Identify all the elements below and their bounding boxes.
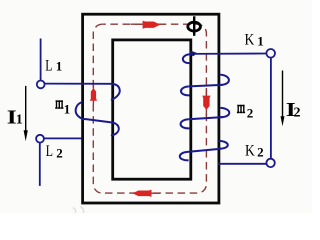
wire L2 vertical lead (39, 143, 41, 186)
flux arrow left leg line (92, 85, 94, 104)
terminal K2 (266, 159, 274, 167)
winding W2 coil left arc 1 (181, 86, 190, 95)
flux arrow right leg line (205, 88, 207, 116)
wire K1 to coil (191, 53, 267, 55)
flux arrow right leg (down-pointing) (202, 96, 210, 110)
flux arrow bottom line (133, 192, 161, 194)
faint scan marks bottom left (73, 207, 84, 215)
winding W2 coil right arc 1 (220, 75, 229, 85)
winding W2 coil arc top curl (183, 54, 191, 63)
flux dashed loop (93, 24, 206, 193)
label W2 glyph (237, 105, 245, 113)
flux arrow bottom (left-pointing) (132, 190, 151, 197)
svg-text:1: 1 (64, 101, 71, 116)
terminal L1 (37, 81, 45, 89)
wire K1 to K2 (270, 58, 272, 159)
current I2 arrowhead (281, 116, 285, 126)
flux arrow top (right-pointing) solid line under arrow (131, 23, 166, 25)
winding W1 coil (111, 84, 120, 100)
svg-text:2: 2 (294, 105, 301, 120)
svg-text:K: K (245, 32, 255, 49)
winding W2 coil left arc 3 (180, 152, 189, 160)
label W1 glyph (55, 100, 63, 108)
wire L1 to coil (45, 83, 113, 85)
svg-text:2: 2 (257, 144, 264, 159)
winding W2 coil front wire 3 (188, 149, 221, 152)
terminal L2 (36, 135, 44, 143)
winding W2 coil left arc 2 (181, 119, 190, 128)
terminal K1 (266, 49, 275, 58)
current I1 arrowhead (24, 130, 28, 141)
winding W2 coil front wire 2 (188, 117, 222, 119)
svg-text:1: 1 (56, 58, 63, 73)
wire L2 to coil (44, 137, 81, 139)
svg-text:L: L (46, 143, 53, 160)
svg-text:L: L (45, 57, 52, 74)
core inner rectangle (window) (113, 40, 191, 179)
flux symbol phi (188, 16, 201, 36)
current I1 direction line (25, 86, 27, 132)
wire K2 to coil (218, 163, 266, 165)
flux arrow left leg (up-pointing) (90, 88, 97, 101)
winding W2 coil right arc 3 (219, 141, 228, 149)
winding W2 coil front wire 1 (189, 85, 222, 87)
svg-text:2: 2 (56, 145, 63, 160)
svg-text:K: K (245, 143, 255, 160)
winding W2 coil right arc 2 (220, 108, 229, 117)
svg-text:1: 1 (16, 113, 23, 128)
current I2 direction line (282, 71, 284, 118)
svg-text:1: 1 (257, 33, 264, 48)
flux arrow top (right-pointing) (143, 21, 161, 29)
core outer rectangle (83, 14, 219, 203)
wire L1 vertical lead (40, 39, 42, 82)
winding W2 entry arrowhead (189, 51, 196, 57)
svg-text:2: 2 (247, 106, 254, 121)
